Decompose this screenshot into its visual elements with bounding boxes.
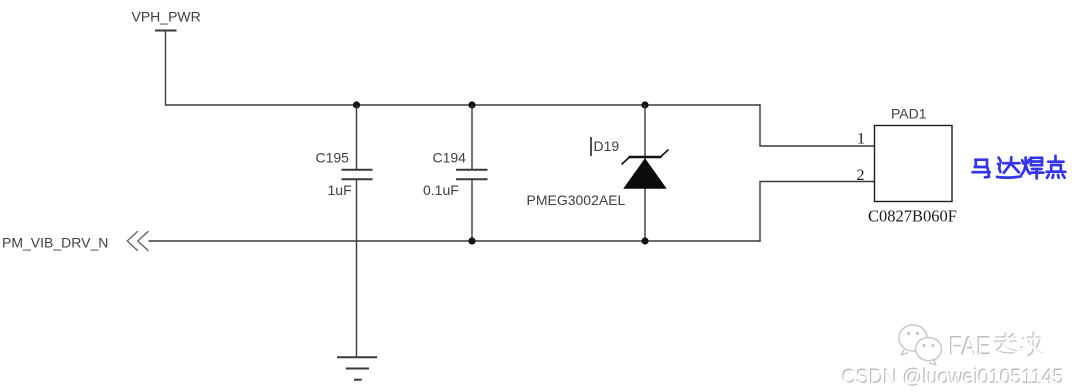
wire C195 bottom plate to ground (crosses bottom rail, no junction) bbox=[356, 179, 358, 357]
svg-text:1uF: 1uF bbox=[328, 182, 352, 198]
wire to PAD1 pin2 bbox=[760, 182, 875, 242]
char 达 bbox=[997, 157, 1021, 177]
svg-text:PAD1: PAD1 bbox=[891, 106, 927, 122]
label caret bbox=[590, 137, 592, 156]
watermark CSDN line bbox=[841, 364, 1064, 389]
svg-text:0.1uF: 0.1uF bbox=[423, 182, 459, 198]
power symbol VPH_PWR bbox=[155, 30, 177, 32]
svg-text:VPH_PWR: VPH_PWR bbox=[132, 9, 201, 25]
junction bottom D19 bbox=[641, 237, 648, 244]
wire VPH_PWR vertical drop bbox=[165, 31, 167, 106]
junction bottom C194 bbox=[468, 237, 475, 244]
connector PAD1 box bbox=[875, 126, 953, 202]
svg-text:2: 2 bbox=[857, 167, 865, 184]
svg-text:FAE: FAE bbox=[950, 332, 993, 362]
capacitor C194 bbox=[456, 105, 488, 241]
wire top rail y=105 bbox=[165, 104, 761, 106]
svg-text:PMEG3002AEL: PMEG3002AEL bbox=[527, 192, 626, 208]
char 焊 bbox=[1022, 158, 1044, 179]
wire to PAD1 pin1 bbox=[760, 104, 875, 146]
svg-text:CSDN @luowei01051145: CSDN @luowei01051145 bbox=[842, 365, 1064, 389]
annotation 马达焊点 (blue, drawn as paths) bbox=[973, 156, 1066, 179]
svg-text:1: 1 bbox=[857, 131, 865, 148]
watermark FAE bbox=[948, 331, 992, 362]
svg-text:C195: C195 bbox=[316, 150, 350, 166]
diode D19 (schottky PMEG3002AEL) bbox=[622, 105, 669, 241]
watermark wechat icon bbox=[899, 325, 942, 365]
char 点 bbox=[1047, 156, 1066, 178]
svg-text:C194: C194 bbox=[433, 150, 467, 166]
svg-text:PM_VIB_DRV_N: PM_VIB_DRV_N bbox=[2, 235, 108, 251]
junction top C194 bbox=[468, 101, 475, 108]
svg-text:C0827B060F: C0827B060F bbox=[868, 207, 957, 226]
ground bbox=[337, 357, 377, 379]
svg-text:D19: D19 bbox=[594, 138, 620, 154]
watermark 老冰 (paths) bbox=[995, 333, 1043, 357]
wire bottom rail y=241 bbox=[149, 240, 761, 242]
port chevrons PM_VIB_DRV_N bbox=[127, 231, 148, 251]
capacitor C195 bbox=[342, 105, 373, 179]
char 马 bbox=[973, 160, 990, 178]
junction top C195 bbox=[353, 101, 360, 108]
junction top D19 bbox=[641, 101, 648, 108]
